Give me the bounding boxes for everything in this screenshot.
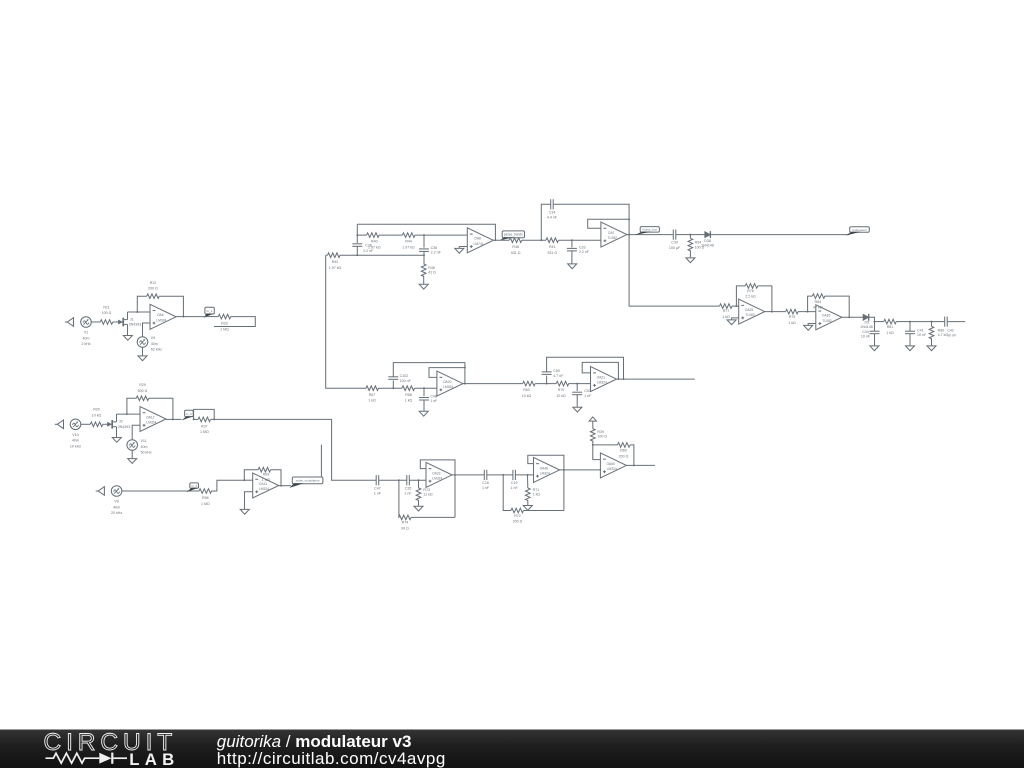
wire R33 loop <box>214 317 255 327</box>
wire R75-OA26 <box>798 311 816 313</box>
wire feedback up stage3 <box>244 470 258 481</box>
svg-text:Noise_box: Noise_box <box>642 228 657 232</box>
wire C55 to top rail <box>547 357 624 379</box>
svg-text:OA21: OA21 <box>597 376 606 380</box>
svg-text:R39: R39 <box>597 430 604 434</box>
capacitor C33 <box>567 245 590 254</box>
svg-text:2.2 nF: 2.2 nF <box>579 250 590 254</box>
wire R54 to ground <box>689 250 691 257</box>
wire J3 drain up <box>116 414 118 422</box>
svg-text:41 Ω: 41 Ω <box>428 271 436 275</box>
node OA6 output junction <box>182 316 184 318</box>
svg-text:LM324: LM324 <box>146 421 156 425</box>
wire node-R81 <box>875 321 884 323</box>
wire R12 to output <box>159 296 183 316</box>
svg-text:LM324: LM324 <box>597 381 607 385</box>
wire output end <box>947 321 965 323</box>
svg-text:LM324: LM324 <box>156 318 166 322</box>
voltage source V10 <box>70 419 81 448</box>
capacitor C16 <box>482 470 490 490</box>
svg-text:40m: 40m <box>151 342 158 346</box>
wire R81-C41 node <box>896 321 910 323</box>
resistor R84 <box>812 294 825 310</box>
wire V11 to ground <box>131 450 133 458</box>
node C57 top <box>576 383 578 385</box>
svg-text:R74: R74 <box>402 521 409 525</box>
wire C36 stem bottom <box>423 251 425 264</box>
node OA48 output junction <box>563 469 565 471</box>
wire OA26 output <box>842 316 863 318</box>
wire J3 drain to op-amp <box>117 413 141 415</box>
ground J3 source <box>112 438 121 443</box>
labels D5/C44 <box>860 321 873 339</box>
svg-text:R58: R58 <box>405 393 412 397</box>
svg-text:4.4 nF: 4.4 nF <box>547 216 558 220</box>
wire R73 to ground <box>418 500 420 506</box>
wire OA48 inner feedback <box>528 455 564 510</box>
svg-text:TL082: TL082 <box>822 319 832 323</box>
wire R54 lead <box>689 235 691 239</box>
transistor J3 <box>104 420 130 429</box>
wire C57 stem <box>576 384 578 391</box>
svg-text:40m: 40m <box>113 505 120 509</box>
power flag above R39 <box>589 417 596 421</box>
resistor R72 <box>511 508 524 523</box>
svg-text:R70: R70 <box>558 388 565 392</box>
svg-text:R54: R54 <box>695 241 702 245</box>
svg-text:R41: R41 <box>549 245 556 249</box>
svg-text:62 kHz: 62 kHz <box>151 347 162 351</box>
wire R71 to ground <box>527 500 529 505</box>
svg-text:1.97 kΩ: 1.97 kΩ <box>329 266 342 270</box>
resistor R76 <box>745 284 758 299</box>
svg-text:10 nF: 10 nF <box>947 333 957 337</box>
node R37 left <box>193 418 195 420</box>
svg-text:V1: V1 <box>84 331 88 335</box>
svg-text:LM324: LM324 <box>259 487 269 491</box>
capacitor C55 <box>542 369 565 378</box>
node C34 left <box>540 239 542 241</box>
op-amp OA48 <box>534 457 560 482</box>
wire C44 to ground <box>874 334 876 346</box>
wire R76 to output <box>758 286 772 312</box>
wire D3A to redresseur <box>710 234 849 236</box>
svg-text:50 kHz: 50 kHz <box>141 450 152 454</box>
wire OA11 minus lead <box>244 479 252 481</box>
wire C36 stem top <box>423 235 425 248</box>
wire node-R40 <box>357 234 366 236</box>
flag in_2 <box>182 410 194 420</box>
footer title: guitorika / modulateur v3 <box>217 732 412 751</box>
wire R59 to output <box>271 470 281 486</box>
input port P3 <box>96 487 105 496</box>
resistor R42 <box>328 253 342 270</box>
capacitor C38 <box>352 244 362 247</box>
resistor R12 <box>147 281 160 299</box>
wire OA26 plus lead <box>808 324 816 326</box>
wire feedback top rail 1 <box>357 224 495 240</box>
resistor R81 <box>884 319 897 335</box>
resistor R37 <box>198 417 211 434</box>
svg-text:C33: C33 <box>579 245 586 249</box>
wire R70-opamp <box>569 383 591 385</box>
wire R73 lead <box>418 480 420 488</box>
node J1 feedback junction <box>136 311 138 313</box>
svg-text:10 kΩ: 10 kΩ <box>522 394 532 398</box>
svg-text:C19: C19 <box>511 481 518 485</box>
ground below R80 <box>927 346 936 351</box>
resistor R41 <box>546 238 559 255</box>
wire C38 stem top <box>356 224 358 243</box>
svg-text:10 nF: 10 nF <box>917 333 927 337</box>
svg-text:99 Ω: 99 Ω <box>401 526 409 530</box>
wire OA7 output <box>627 234 673 236</box>
svg-text:OA60: OA60 <box>606 462 615 466</box>
resistor R29 <box>136 383 149 400</box>
wire OA6 output <box>176 316 204 318</box>
voltage source V6 <box>111 486 122 515</box>
svg-text:sortie_modulateur: sortie_modulateur <box>296 479 320 483</box>
wire C33 to ground <box>571 251 573 264</box>
ground OA8 plus <box>455 248 464 253</box>
svg-text:OA48: OA48 <box>540 466 549 470</box>
wire R57-R58 <box>379 387 403 389</box>
node OA26 minus junction <box>807 311 809 313</box>
svg-text:R77: R77 <box>723 309 730 313</box>
ground below R71 <box>523 506 532 511</box>
node R37 right <box>213 418 215 420</box>
svg-text:2N4393: 2N4393 <box>129 323 142 327</box>
wire flag2-R37 <box>194 418 198 420</box>
resistor R57 <box>366 386 378 403</box>
capacitor C57 <box>572 389 592 398</box>
capacitor C34 <box>547 199 558 219</box>
wire J1 drain to op-amp <box>128 311 151 313</box>
CircuitLab logo LAB <box>129 750 179 768</box>
svg-text:OA25: OA25 <box>745 308 754 312</box>
svg-text:40m: 40m <box>141 445 148 449</box>
op-amp OA23 <box>426 462 452 487</box>
svg-text:931 Ω: 931 Ω <box>547 251 557 255</box>
wire bottom rail 2 up <box>503 475 511 511</box>
svg-text:C36: C36 <box>431 246 438 250</box>
ground OA26 plus <box>804 325 813 330</box>
wire C34 left vertical <box>541 204 550 240</box>
wire C41 stem <box>909 322 911 332</box>
wire OA7 inner feedback <box>588 219 629 228</box>
svg-text:R37: R37 <box>201 424 208 428</box>
op-amp OA12 <box>140 407 166 432</box>
wire C102 stem bottom <box>392 381 394 389</box>
svg-text:R40: R40 <box>371 240 378 244</box>
wire C33 stem <box>571 240 573 247</box>
svg-text:2N4393: 2N4393 <box>118 425 131 429</box>
ground below C41 <box>906 346 915 351</box>
wire feedback up stage1 <box>137 296 146 312</box>
node J3 feedback junction <box>126 413 128 415</box>
svg-text:R44: R44 <box>405 240 412 244</box>
wire feedback up OA25 <box>736 286 745 306</box>
svg-text:R11: R11 <box>103 305 109 309</box>
wire R42 lead <box>326 254 328 256</box>
svg-text:C16: C16 <box>482 481 489 485</box>
wire V10-R20 <box>81 423 90 425</box>
capacitor C36 <box>419 246 442 255</box>
svg-text:1 nF: 1 nF <box>430 399 438 403</box>
svg-text:1 MΩ: 1 MΩ <box>200 430 209 434</box>
svg-text:1 nF: 1 nF <box>482 486 490 490</box>
svg-text:OA12: OA12 <box>146 415 155 419</box>
wire C34 right rail <box>553 204 629 219</box>
svg-text:redresseur: redresseur <box>852 228 867 232</box>
svg-text:R33: R33 <box>221 322 228 326</box>
svg-text:1.97 kΩ: 1.97 kΩ <box>368 245 381 249</box>
svg-text:R73: R73 <box>423 488 430 492</box>
svg-text:D5: D5 <box>864 321 869 325</box>
ground below C48 <box>419 411 428 416</box>
svg-text:R56: R56 <box>202 496 209 500</box>
svg-text:1.97 kΩ: 1.97 kΩ <box>402 245 415 249</box>
capacitor C102 <box>388 374 411 383</box>
capacitor C39 <box>669 230 681 250</box>
op-amp OA21 <box>591 367 617 392</box>
wire R56 step up <box>212 480 245 491</box>
svg-text:R84: R84 <box>815 300 822 304</box>
svg-text:in_3: in_3 <box>191 484 197 488</box>
wire OA20 output <box>463 383 523 385</box>
wire V6 to flag <box>122 490 199 492</box>
resistor R60 <box>618 443 631 459</box>
wire OA23 output <box>452 474 484 476</box>
svg-text:in_1: in_1 <box>207 309 213 313</box>
capacitor C19 <box>511 470 519 490</box>
svg-text:R81: R81 <box>887 325 894 329</box>
wire C41-R80 node <box>910 321 932 323</box>
wire bottom rail 1 up <box>398 480 400 517</box>
wire OA21 inner feedback <box>582 362 618 379</box>
wire C47-node <box>379 479 407 481</box>
wire flag1-R33 <box>204 316 219 318</box>
wire R46 to ground <box>423 276 425 284</box>
resistor R56 <box>199 489 212 506</box>
wire R58-node <box>415 387 437 389</box>
node R71 top <box>527 474 529 476</box>
svg-text:R75: R75 <box>789 315 796 319</box>
svg-text:C35: C35 <box>405 486 412 490</box>
wire R48-R41 <box>522 239 546 241</box>
svg-text:2.2 nF: 2.2 nF <box>363 249 374 253</box>
voltage source V1 <box>81 317 92 346</box>
resistor R11 <box>100 305 113 324</box>
svg-text:100 nF: 100 nF <box>400 379 412 383</box>
resistor R39 <box>591 429 608 442</box>
wire stage2 long output <box>211 419 377 480</box>
op-amp OA11 <box>253 473 279 498</box>
svg-text:C34: C34 <box>549 210 556 214</box>
wire C39 right lead <box>676 234 691 236</box>
ground below R46 <box>419 284 428 289</box>
wire C35-opamp <box>409 479 426 481</box>
svg-text:LM741: LM741 <box>474 242 484 246</box>
wire R37 bridge <box>194 409 215 419</box>
resistor R44 <box>402 233 415 250</box>
svg-text:OA20: OA20 <box>443 380 452 384</box>
ground below C33 <box>568 264 577 269</box>
wire R29 to output <box>149 398 173 419</box>
svg-text:C44: C44 <box>862 330 869 334</box>
wire R39-node <box>592 441 594 445</box>
svg-text:in_2: in_2 <box>186 412 192 416</box>
resistor R40 <box>367 233 381 250</box>
wire V9 to ground <box>142 347 144 355</box>
ground J1 source <box>123 336 132 341</box>
svg-text:931 Ω: 931 Ω <box>511 251 521 255</box>
svg-text:OA11: OA11 <box>259 482 267 486</box>
svg-text:11 kΩ: 11 kΩ <box>423 492 433 496</box>
node OA21 inner join <box>617 378 619 380</box>
node OA60 output junction <box>633 464 635 466</box>
wire J3 source down <box>116 427 118 438</box>
wire R11-J1 gate <box>113 321 115 323</box>
svg-text:OA6: OA6 <box>157 313 164 317</box>
svg-text:1 kΩ: 1 kΩ <box>368 399 376 403</box>
ground below R73 <box>414 506 423 511</box>
wire OA8 output <box>493 239 509 241</box>
resistor R70 <box>556 381 569 398</box>
svg-text:500 Ω: 500 Ω <box>138 389 148 393</box>
svg-text:C48: C48 <box>430 395 437 399</box>
svg-text:C41: C41 <box>917 328 924 332</box>
svg-text:C57: C57 <box>584 389 591 393</box>
svg-text:LM324: LM324 <box>443 385 453 389</box>
wire C38 stem bottom <box>356 246 358 255</box>
wire vcc-R39 <box>592 421 594 429</box>
wire R42 to C36 node <box>340 254 424 256</box>
flag redresseur <box>846 227 870 236</box>
diode D5 <box>863 314 869 321</box>
svg-text:200 Ω: 200 Ω <box>619 455 629 459</box>
svg-text:1 kΩ: 1 kΩ <box>788 321 796 325</box>
svg-text:1 nF: 1 nF <box>374 492 382 496</box>
wire C44 stem <box>874 322 876 332</box>
svg-text:passe_bande: passe_bande <box>504 233 523 237</box>
wire C57 to ground <box>576 395 578 407</box>
resistor R73 <box>416 488 433 501</box>
node OA20 output junction <box>464 383 466 385</box>
svg-text:LM324: LM324 <box>540 472 550 476</box>
resistor R58 <box>402 386 414 403</box>
wire C55 stem bottom <box>546 376 548 384</box>
flag passe_bande <box>500 231 524 240</box>
capacitor C35 <box>404 475 412 495</box>
wire OA21 output <box>617 378 695 380</box>
svg-text:1 nF: 1 nF <box>511 486 519 490</box>
node OA25 output junction <box>771 311 773 313</box>
svg-text:C55: C55 <box>553 369 560 373</box>
wire C16-C19 <box>487 474 513 476</box>
wire C19-opamp <box>515 474 533 476</box>
node C33 top <box>571 239 573 241</box>
svg-text:200 Ω: 200 Ω <box>148 287 158 291</box>
svg-text:V6: V6 <box>114 500 118 504</box>
op-amp OA26 <box>816 305 842 330</box>
svg-text:C47: C47 <box>374 486 381 490</box>
svg-text:R60: R60 <box>620 449 627 453</box>
node C36 bottom <box>423 254 425 256</box>
ground OA11 plus <box>240 509 249 514</box>
svg-text:1 kΩ: 1 kΩ <box>886 331 894 335</box>
ground below C57 <box>573 407 582 412</box>
svg-text:100 Ω: 100 Ω <box>102 311 112 315</box>
wire bottom rail 2 <box>523 510 563 512</box>
node C41 top <box>909 321 911 323</box>
flag Noise_box <box>635 227 660 235</box>
node R54 top <box>689 234 691 236</box>
node R39/R60 <box>592 444 594 446</box>
resistor R48 <box>509 238 522 255</box>
labels C42 <box>947 328 957 337</box>
resistor R33 <box>218 314 231 331</box>
wire OA23 inner feedback <box>420 460 455 518</box>
capacitor C48 <box>419 395 438 404</box>
wire feedback up OA26 <box>808 296 813 312</box>
svg-text:100 µF: 100 µF <box>669 246 681 250</box>
svg-text:1 kΩ: 1 kΩ <box>533 493 541 497</box>
svg-text:R63: R63 <box>523 388 530 392</box>
svg-text:http://circuitlab.com/cv4avpg: http://circuitlab.com/cv4avpg <box>217 749 446 768</box>
input port P2 <box>55 420 64 429</box>
op-amp OA7 <box>601 222 627 247</box>
wire R71 lead <box>527 475 529 488</box>
svg-text:1 nF: 1 nF <box>584 394 592 398</box>
flag in_1 <box>204 307 215 318</box>
svg-text:2 kHz: 2 kHz <box>81 342 90 346</box>
node OA21 outer join <box>623 378 625 380</box>
wire OA12 output <box>166 418 182 420</box>
wire C41 to ground <box>909 334 911 346</box>
svg-text:R59: R59 <box>263 472 270 476</box>
svg-text:V9: V9 <box>151 336 155 340</box>
node feedback2 bottom <box>502 474 504 476</box>
resistor R63 <box>522 381 535 398</box>
svg-text:10 kΩ: 10 kΩ <box>556 394 566 398</box>
svg-text:J3: J3 <box>119 420 123 424</box>
node OA7 output junction <box>628 234 630 236</box>
wire J1 drain up <box>127 312 129 320</box>
wire OA6 plus lead <box>143 323 151 336</box>
resistor R20 <box>90 408 103 427</box>
svg-text:1 MΩ: 1 MΩ <box>201 502 210 506</box>
node C44 top <box>874 321 876 323</box>
node R40 input <box>356 234 358 236</box>
voltage source V9 <box>137 336 162 351</box>
CircuitLab logo wordmark CIRCUIT <box>44 729 178 756</box>
voltage source V11 <box>127 439 152 454</box>
node R80 top <box>931 321 933 323</box>
resistor R54 <box>688 238 704 251</box>
wire J1 source down <box>127 324 129 335</box>
svg-text:C39: C39 <box>671 241 678 245</box>
wire R41-C33 node <box>559 239 601 241</box>
svg-text:R71: R71 <box>533 488 540 492</box>
resistor R80 <box>929 326 948 339</box>
op-amp OA8 <box>467 228 493 253</box>
wire R60 to output <box>630 445 634 466</box>
label C38 <box>363 243 374 253</box>
wire minus lead OA60 <box>593 445 601 460</box>
svg-text:R29: R29 <box>139 383 146 387</box>
wire D5 step down <box>869 317 875 321</box>
